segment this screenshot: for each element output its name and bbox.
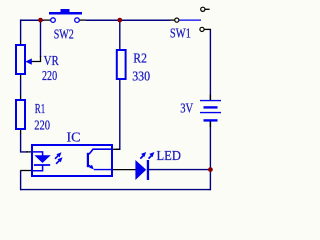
- resistor R2: [116, 49, 127, 80]
- svg-text:LED: LED: [157, 149, 181, 164]
- pin stub IC anode: [26, 151, 32, 153]
- pin stub SW1 pole left: [170, 19, 175, 21]
- wire bottom rail: [20, 189, 211, 191]
- variable resistor VR body: [15, 44, 26, 75]
- IC internal LED: [33, 152, 51, 171]
- svg-text:220: 220: [42, 69, 57, 84]
- wire IC emitter to LED: [113, 169, 136, 171]
- wire IC cathode to bottom rail: [20, 171, 22, 191]
- svg-text:R2: R2: [133, 52, 147, 67]
- pin stub battery top: [209, 95, 211, 101]
- LED diode: [135, 160, 149, 180]
- wire left vertical (top rail to VR): [20, 19, 22, 41]
- variable resistor VR wiper arrow: [25, 58, 32, 64]
- LED emission arrow 1: [140, 152, 146, 159]
- junction node at R2 branch: [117, 18, 122, 23]
- junction node at VR wiper: [38, 18, 43, 23]
- pin stub R1 bottom: [20, 129, 22, 134]
- wire R1 to IC anode: [21, 133, 28, 152]
- pin stub R1 top: [20, 95, 22, 100]
- wire top rail: [20, 19, 170, 21]
- junction node at LED / right rail: [208, 167, 213, 172]
- pin stub SW2 right: [80, 19, 87, 21]
- svg-text:330: 330: [132, 70, 150, 85]
- wire LED to right rail: [149, 169, 210, 171]
- pin stub VR wiper horizontal: [30, 56, 41, 62]
- svg-text:VR: VR: [44, 54, 60, 69]
- pin stub SW2 left: [44, 19, 51, 21]
- svg-text:220: 220: [34, 118, 50, 133]
- resistor R1: [15, 99, 26, 130]
- pin stub IC collector: [113, 148, 120, 150]
- pin stub VR bottom: [20, 75, 22, 80]
- battery 3V: [200, 101, 221, 121]
- pin stub VR top: [20, 41, 22, 45]
- pin stub battery bottom: [209, 121, 211, 127]
- svg-text:R1: R1: [35, 102, 45, 117]
- IC phototransistor: [87, 149, 111, 169]
- wire VR wiper drop: [40, 19, 42, 57]
- svg-text:IC: IC: [67, 130, 81, 145]
- IC emission arrow 2: [56, 157, 63, 164]
- wire battery to bottom rail: [209, 122, 211, 191]
- LED emission arrow 2: [149, 152, 155, 159]
- wire right rail (SW1 to battery): [209, 29, 211, 100]
- pin stub IC cathode: [20, 170, 31, 172]
- wire VR to R1: [20, 79, 22, 95]
- push switch SW2: [49, 9, 82, 22]
- optocoupler IC box: [31, 144, 113, 177]
- switch SW1: [175, 7, 211, 31]
- svg-text:SW2: SW2: [54, 27, 74, 42]
- wire R2 top branch: [119, 19, 121, 49]
- svg-text:3V: 3V: [180, 102, 193, 117]
- svg-text:SW1: SW1: [170, 27, 191, 42]
- wire R2 bottom to IC collector: [116, 80, 120, 149]
- IC emission arrow 1: [55, 152, 62, 159]
